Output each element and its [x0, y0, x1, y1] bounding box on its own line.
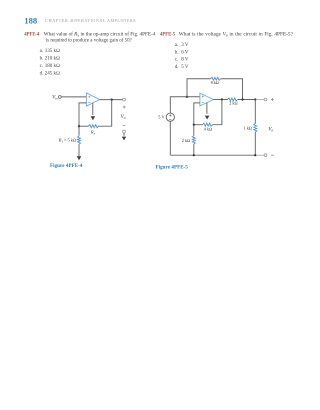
wire source down to bottom rail [169, 121, 171, 155]
output terminal - [123, 130, 126, 133]
wire to + terminal [256, 99, 264, 101]
ground at output terminal [123, 133, 125, 136]
svg-text:a.: a. [40, 49, 43, 54]
node top-left junction [186, 96, 188, 98]
svg-text:d.: d. [40, 72, 44, 77]
wire op-amp output [100, 99, 123, 101]
wire 1k from Vo node down [254, 100, 256, 124]
output terminal + [123, 98, 126, 101]
wire inverting input [194, 103, 200, 125]
svg-text:8 V: 8 V [181, 58, 189, 63]
svg-text:d.: d. [175, 65, 179, 70]
svg-text:5 V: 5 V [181, 65, 189, 70]
node bottom right junction [254, 154, 256, 156]
wire Rx to node A [79, 125, 88, 127]
output terminal + [264, 98, 267, 101]
resistor 2k left [192, 136, 195, 145]
resistor 8k top [211, 77, 221, 80]
wire source to + input [170, 97, 200, 113]
svg-text:135 kΩ: 135 kΩ [45, 48, 60, 54]
wire top rail right and down [221, 79, 243, 100]
node B [193, 124, 195, 126]
svg-text:4 kΩ: 4 kΩ [204, 126, 212, 131]
svg-text:CHAPTER 4: CHAPTER 4 [45, 18, 72, 23]
resistor Rx [88, 125, 98, 128]
wire up to top rail [187, 79, 211, 97]
svg-text:b.: b. [40, 57, 44, 62]
wire op-amp output [213, 99, 227, 101]
svg-text:245 kΩ: 245 kΩ [45, 71, 60, 77]
wire node B down [193, 125, 195, 136]
svg-text:6 V: 6 V [181, 50, 189, 55]
svg-text:2 kΩ: 2 kΩ [229, 100, 237, 105]
output terminal - [264, 154, 267, 157]
voltage source 5V [166, 113, 174, 121]
svg-text:b.: b. [175, 50, 179, 55]
node Vo top [254, 98, 256, 100]
resistor 2k output [228, 98, 238, 101]
svg-text:1 kΩ: 1 kΩ [244, 126, 252, 131]
node output junction [221, 98, 223, 100]
svg-text:180 kΩ: 180 kΩ [45, 63, 60, 69]
input terminal [58, 96, 61, 99]
node top rail lands [241, 98, 243, 100]
wire 2k to bottom rail [193, 144, 195, 155]
svg-text:Figure 4PFE-4: Figure 4PFE-4 [50, 164, 83, 169]
svg-text:4PFE-4: 4PFE-4 [24, 33, 40, 38]
svg-text:is required to produce a volta: is required to produce a voltage gain of… [46, 37, 133, 44]
svg-text:What value of Rx in the op-amp: What value of Rx in the op-amp circuit o… [44, 31, 156, 38]
op-amp U1 [86, 93, 99, 106]
svg-text:Vin: Vin [52, 96, 58, 101]
resistor 4k [202, 123, 212, 126]
svg-text:4PFE-5: 4PFE-5 [160, 33, 176, 38]
node bottom left junction [193, 154, 195, 156]
wire feedback down [99, 100, 112, 127]
node A [78, 125, 80, 127]
svg-text:5 V: 5 V [158, 115, 165, 120]
wire to Vo node [238, 99, 256, 101]
wire R1 to ground [78, 144, 80, 156]
node output junction [111, 99, 113, 101]
ground under op-amp [206, 103, 208, 114]
wire 1k to bottom rail [254, 132, 256, 155]
resistor R1 [78, 136, 81, 145]
svg-text:8 kΩ: 8 kΩ [211, 80, 219, 85]
svg-text:c.: c. [40, 64, 43, 69]
svg-text:3 V: 3 V [181, 43, 189, 48]
svg-text:a.: a. [175, 43, 178, 48]
svg-text:2 kΩ: 2 kΩ [182, 138, 190, 143]
wire input to op-amp [61, 96, 86, 98]
wire to - terminal [256, 154, 264, 156]
resistor 1k [254, 124, 257, 133]
wire inverting input down [79, 103, 86, 126]
svg-text:c.: c. [175, 58, 178, 63]
bottom rail [170, 154, 255, 156]
svg-text:What is the voltage Vo in the: What is the voltage Vo in the circuit in… [179, 32, 294, 38]
svg-text:Figure 4PFE-5: Figure 4PFE-5 [156, 165, 189, 170]
svg-text:210 kΩ: 210 kΩ [45, 56, 60, 62]
op-amp U2 [200, 93, 214, 106]
ground under R1 [77, 156, 82, 160]
wire node A to R1 [78, 126, 80, 136]
wire 4k to node B [194, 124, 203, 126]
ground under op-amp [92, 103, 94, 115]
svg-text:188: 188 [24, 15, 38, 25]
wire feedback down from output [213, 100, 222, 125]
svg-text:OPERATIONAL AMPLIFIERS: OPERATIONAL AMPLIFIERS [72, 18, 136, 23]
